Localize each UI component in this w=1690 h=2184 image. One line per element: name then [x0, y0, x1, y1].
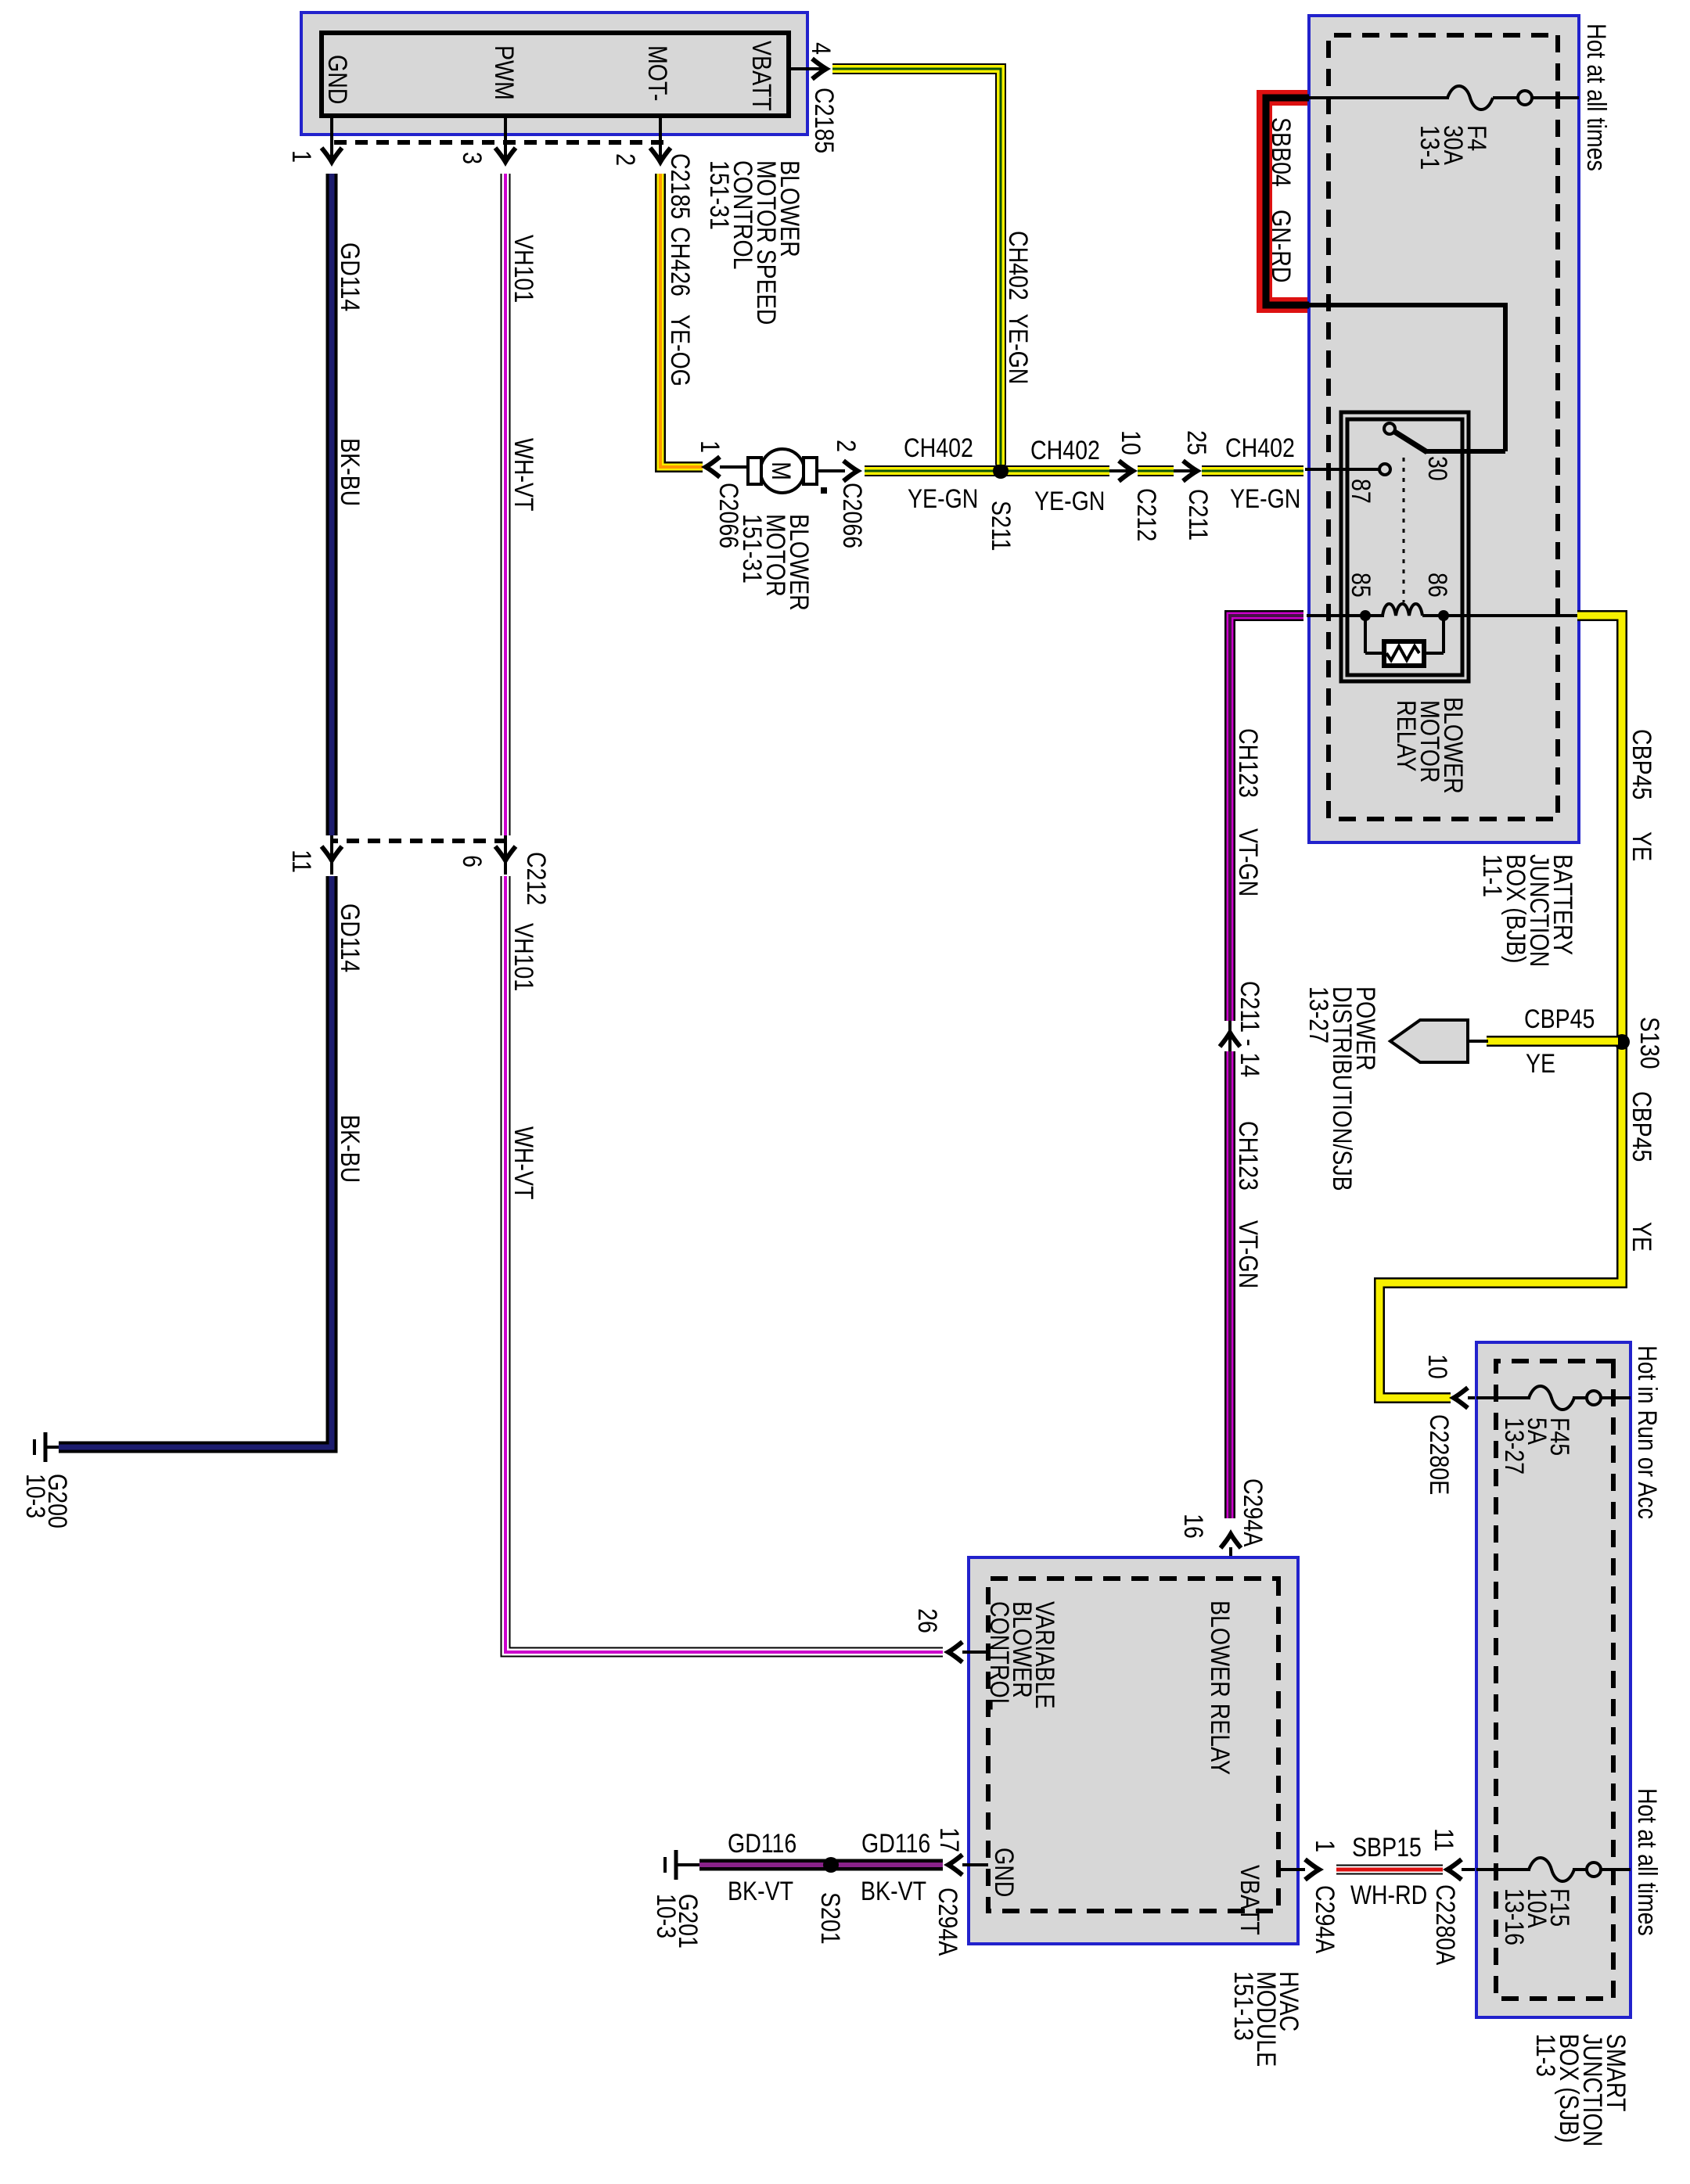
- caption SMART JUNCTION BOX (SJB) 11-3: [1530, 2034, 1631, 2146]
- svg-text:BK-BU: BK-BU: [335, 438, 365, 506]
- fuse F4 line mid: [1493, 96, 1518, 99]
- fuse F45 line lower: [1476, 1396, 1530, 1399]
- hvac pin 16 line: [1229, 1547, 1232, 1579]
- relay pin 86 terminal dot: [1438, 610, 1449, 621]
- fuse F45 line upper: [1601, 1396, 1631, 1399]
- ground G201: [665, 1850, 699, 1880]
- pin number 16: [1178, 1514, 1208, 1539]
- pin number 10: [1116, 430, 1145, 455]
- box HVAC MODULE: [969, 1557, 1298, 1944]
- svg-text:C211: C211: [1183, 489, 1213, 541]
- pin number 4: [806, 42, 836, 55]
- svg-text:VT-GN: VT-GN: [1233, 828, 1263, 896]
- relay resistor zigzag: [1386, 646, 1419, 660]
- pin number 1 (C294A): [1310, 1840, 1339, 1852]
- junction S130: [1614, 1034, 1630, 1050]
- svg-text:YE: YE: [1526, 1049, 1555, 1079]
- motor pin 1 thin line: [720, 465, 746, 469]
- svg-text:C212: C212: [1131, 488, 1161, 541]
- svg-text:10-3: 10-3: [20, 1474, 50, 1518]
- svg-text:M: M: [766, 462, 796, 480]
- connector arrow C294A pin 16: [1221, 1534, 1241, 1548]
- label CH402 (pair A): [904, 433, 973, 463]
- motor pin 2 thin line: [817, 469, 845, 472]
- svg-text:151-31: 151-31: [737, 514, 767, 584]
- caption HVAC MODULE 151-13: [1228, 1971, 1303, 2067]
- caption BLOWER MOTOR SPEED CONTROL 151-31: [704, 160, 804, 325]
- connector arrow C211 pin 25: [1183, 461, 1197, 481]
- label C2066 (pin 1): [714, 483, 743, 548]
- label CH426: [665, 227, 695, 296]
- pin MOT- stub: [659, 116, 662, 160]
- svg-text:151-13: 151-13: [1228, 1971, 1258, 2041]
- wire CH123 VT-GN segment 1: [1230, 616, 1303, 1021]
- svg-text:VT-GN: VT-GN: [1233, 1220, 1263, 1288]
- motor brush box top: [804, 458, 817, 484]
- svg-text:13-27: 13-27: [1499, 1417, 1529, 1475]
- label 10-3 (G201): [651, 1894, 681, 1938]
- svg-text:CH402: CH402: [1003, 231, 1033, 300]
- svg-text:86: 86: [1422, 573, 1452, 598]
- fuse F15 line lower: [1476, 1868, 1530, 1871]
- wire GD114 BK-BU segment 1: [326, 174, 338, 835]
- connector C212 dashed line: [333, 839, 507, 843]
- label GD116 (2): [728, 1829, 796, 1859]
- wire CH402 YE-GN VBATT feed: [832, 69, 1001, 465]
- fuse F4 terminal circle: [1518, 91, 1532, 105]
- fuse F15 terminal circle: [1587, 1863, 1601, 1877]
- label CBP45 (1): [1627, 729, 1656, 799]
- svg-text:GND: GND: [322, 55, 352, 104]
- svg-text:GD116: GD116: [728, 1829, 796, 1859]
- wire CH123 thin gap at C211-14: [1228, 1021, 1232, 1051]
- box BLOWER MOTOR SPEED CONTROL (inner): [322, 33, 789, 116]
- connector arrow C2185 pin 4: [812, 59, 826, 79]
- label G201: [673, 1894, 703, 1949]
- label CH123 (1): [1233, 728, 1263, 798]
- wire CH402 YE-GN between C212 and C211: [1138, 465, 1174, 476]
- label C294A (pin 17): [933, 1888, 962, 1956]
- wire CBP45 YE branch to power distribution: [1487, 1036, 1618, 1047]
- svg-text:BLOWER RELAY: BLOWER RELAY: [1205, 1600, 1235, 1775]
- svg-text:C294A: C294A: [1238, 1478, 1267, 1546]
- label VBATT: [746, 41, 776, 111]
- svg-text:WH-VT: WH-VT: [509, 1126, 538, 1200]
- label GND: [322, 55, 352, 104]
- wire SBB04 GN-RD bracket: [1264, 98, 1309, 305]
- hvac pin 26 line: [962, 1651, 988, 1654]
- label YE-GN (pair B): [1034, 487, 1105, 516]
- svg-text:2: 2: [610, 153, 640, 166]
- label GND (HVAC): [989, 1848, 1019, 1897]
- label YE (1): [1627, 832, 1656, 861]
- pin number 2: [610, 153, 640, 166]
- pin number 25: [1181, 430, 1211, 455]
- svg-text:SBP15: SBP15: [1352, 1833, 1422, 1863]
- svg-text:VH101: VH101: [509, 923, 538, 991]
- svg-text:GD116: GD116: [861, 1829, 930, 1859]
- pin number 26: [912, 1608, 942, 1633]
- svg-text:BK-BU: BK-BU: [335, 1115, 365, 1183]
- blower motor M circle: [760, 449, 804, 493]
- svg-text:Hot in Run or Acc: Hot in Run or Acc: [1632, 1345, 1662, 1519]
- svg-text:11-3: 11-3: [1530, 2034, 1560, 2077]
- label VARIABLE BLOWER CONTROL: [984, 1601, 1059, 1711]
- svg-text:YE-OG: YE-OG: [665, 314, 695, 386]
- svg-text:C2066: C2066: [837, 483, 867, 548]
- connector arrow pin 26: [948, 1642, 962, 1662]
- label MOT-: [642, 45, 672, 101]
- label GD114 (1): [335, 242, 365, 311]
- label YE-GN (pair C): [1230, 484, 1300, 514]
- fuse F4 line lower: [1307, 96, 1449, 99]
- label C211 - 14: [1235, 981, 1264, 1077]
- connector arrow C2066 pin 2: [843, 461, 858, 481]
- label C2185 at MOT- wire: [665, 153, 695, 219]
- label S130: [1634, 1017, 1664, 1069]
- power distribution pentagon: [1390, 1020, 1468, 1062]
- svg-text:13-27: 13-27: [1303, 986, 1333, 1044]
- label CH402 (pair B): [1030, 436, 1100, 465]
- svg-text:C2185: C2185: [665, 153, 695, 219]
- fuse F45 terminal circle: [1587, 1391, 1601, 1405]
- svg-text:3: 3: [457, 152, 487, 164]
- pin VBATT stub: [789, 67, 823, 70]
- pin number 3: [457, 152, 487, 164]
- svg-text:C2280A: C2280A: [1430, 1884, 1460, 1965]
- label F45 5A 13-27: [1499, 1417, 1574, 1475]
- label 85: [1346, 573, 1375, 598]
- wire CH123 VT-GN segment 2: [1224, 1051, 1235, 1518]
- connector arrow C2066 pin 1: [706, 457, 720, 477]
- wire CH402 thin gap at C212 (10): [1109, 469, 1131, 472]
- svg-text:Hot at all times: Hot at all times: [1632, 1788, 1662, 1936]
- svg-text:10-3: 10-3: [651, 1894, 681, 1938]
- svg-text:C2280E: C2280E: [1424, 1414, 1454, 1495]
- connector arrow C212 pin 11: [322, 846, 342, 860]
- label C2185 at VBATT pin: [809, 88, 839, 153]
- wire CH402 YE-GN motor to S211 and C212: [865, 465, 1109, 476]
- svg-text:BK-VT: BK-VT: [861, 1877, 926, 1906]
- pin GND stub: [330, 116, 333, 160]
- pin number 1: [286, 150, 316, 163]
- label F15 10A 13-16: [1499, 1888, 1574, 1945]
- relay pin 86 line to box edge: [1444, 614, 1579, 617]
- wire SBP15 thin to SJB: [1462, 1868, 1476, 1871]
- svg-text:GD114: GD114: [335, 903, 365, 972]
- label VH101 (1): [509, 235, 538, 303]
- caption BLOWER MOTOR RELAY: [1391, 697, 1468, 794]
- label C212 (pin 10): [1131, 488, 1161, 541]
- label C211 (pin 25): [1183, 489, 1213, 541]
- label SBB04: [1266, 117, 1296, 187]
- svg-text:S211: S211: [986, 501, 1016, 551]
- wire CH402 thin gap at C211 (25): [1174, 469, 1196, 472]
- label Hot at all times (BJB): [1581, 23, 1611, 171]
- box HVAC dashed inner: [988, 1579, 1278, 1911]
- label WH-VT (2): [509, 1126, 538, 1200]
- svg-text:C294A: C294A: [933, 1888, 962, 1956]
- fuse F15 line mid: [1573, 1868, 1587, 1871]
- label VBATT (HVAC): [1235, 1865, 1264, 1935]
- label 86: [1422, 573, 1452, 598]
- svg-text:10: 10: [1116, 430, 1145, 455]
- pin PWM stub: [504, 116, 507, 160]
- wire CH426 YE-OG: [660, 174, 703, 467]
- label YE (branch): [1526, 1049, 1555, 1079]
- svg-text:GD114: GD114: [335, 242, 365, 311]
- connector arrow C294A pin 17: [948, 1855, 962, 1875]
- connector arrow C2280A pin 11: [1447, 1859, 1462, 1880]
- label 30: [1422, 456, 1452, 481]
- svg-text:GND: GND: [989, 1848, 1019, 1897]
- svg-text:151-31: 151-31: [704, 160, 734, 230]
- label YE (2): [1627, 1222, 1656, 1252]
- caption POWER DISTRIBUTION/SJB 13-27: [1303, 986, 1380, 1191]
- label YE-GN (feed): [1003, 314, 1033, 384]
- label YE-GN (pair A): [908, 484, 978, 514]
- hvac pin 1 line: [1278, 1868, 1305, 1871]
- label C294A (pin 1): [1310, 1885, 1339, 1953]
- relay box inner: [1347, 419, 1462, 675]
- fuse F4 element: [1447, 86, 1493, 110]
- svg-text:16: 16: [1178, 1514, 1208, 1539]
- connector arrow C2185 pin 3: [495, 148, 516, 162]
- wire GD114 thin gap at C212: [330, 835, 333, 875]
- label SBP15: [1352, 1833, 1422, 1863]
- svg-text:WH-VT: WH-VT: [509, 438, 538, 512]
- relay pin 87 line: [1305, 468, 1379, 471]
- label VH101 (2): [509, 923, 538, 991]
- label BLOWER RELAY: [1205, 1600, 1235, 1775]
- label GD116 (1): [861, 1829, 930, 1859]
- wire CH402 YE-GN into BJB: [1202, 465, 1303, 476]
- fuse F45 element: [1529, 1386, 1574, 1410]
- svg-text:1: 1: [286, 150, 316, 163]
- label CBP45 (2): [1627, 1091, 1656, 1162]
- box BJB dashed inner: [1329, 35, 1558, 819]
- svg-text:4: 4: [806, 42, 836, 55]
- svg-text:CH402: CH402: [1225, 433, 1295, 463]
- svg-text:C294A: C294A: [1310, 1885, 1339, 1953]
- label S201: [815, 1892, 845, 1945]
- svg-text:YE: YE: [1627, 1222, 1656, 1252]
- wire VH101 WH-VT segment 1: [501, 174, 511, 835]
- connector arrow C294A pin 1: [1305, 1859, 1319, 1880]
- label BK-VT (2): [728, 1877, 793, 1906]
- relay feed line from SBB04: [1309, 303, 1505, 451]
- label YE-OG: [665, 314, 695, 386]
- svg-text:85: 85: [1346, 573, 1375, 598]
- label C294A (pin 16): [1238, 1478, 1267, 1546]
- relay box outer: [1341, 412, 1469, 681]
- box BLOWER MOTOR SPEED CONTROL (outer): [301, 13, 807, 135]
- label CH123 (2): [1233, 1121, 1263, 1191]
- box SMART JUNCTION BOX (SJB): [1476, 1342, 1631, 2017]
- svg-text:CH426: CH426: [665, 227, 695, 296]
- svg-text:1: 1: [1310, 1840, 1339, 1852]
- connector arrow C2280E pin 10: [1454, 1388, 1468, 1408]
- svg-text:YE-GN: YE-GN: [1003, 314, 1033, 384]
- svg-text:87: 87: [1346, 479, 1375, 504]
- svg-text:CH402: CH402: [904, 433, 973, 463]
- svg-text:1: 1: [695, 440, 725, 453]
- pin number 10 (C2280E): [1422, 1354, 1452, 1379]
- svg-text:10: 10: [1422, 1354, 1452, 1379]
- box BATTERY JUNCTION BOX (BJB): [1309, 16, 1579, 842]
- relay switch blade: [1393, 431, 1427, 452]
- label WH-RD: [1350, 1880, 1427, 1910]
- label C2280A: [1430, 1884, 1460, 1965]
- svg-text:26: 26: [912, 1608, 942, 1633]
- svg-text:CBP45: CBP45: [1524, 1004, 1595, 1034]
- svg-text:6: 6: [457, 855, 487, 867]
- svg-text:C212: C212: [521, 852, 551, 905]
- hvac pin 17 line: [962, 1863, 988, 1866]
- svg-text:11: 11: [1429, 1828, 1458, 1852]
- fuse F45 stub below box: [1468, 1396, 1476, 1399]
- label C2280E: [1424, 1414, 1454, 1495]
- svg-text:11: 11: [286, 850, 316, 873]
- connector arrow C2185 pin 2: [650, 148, 671, 162]
- junction S211: [993, 463, 1009, 479]
- svg-text:YE-GN: YE-GN: [1230, 484, 1300, 514]
- label BK-BU (1): [335, 438, 365, 506]
- label 87: [1346, 479, 1375, 504]
- connector arrow C211 pin 14: [1220, 1033, 1240, 1047]
- svg-text:CH123: CH123: [1233, 1121, 1263, 1191]
- relay pin 85 terminal dot: [1360, 610, 1371, 621]
- ground G200: [34, 1432, 59, 1462]
- junction S201: [823, 1857, 839, 1873]
- relay pin 87 contact circle: [1379, 464, 1390, 475]
- svg-text:CBP45: CBP45: [1627, 729, 1656, 799]
- svg-text:CH402: CH402: [1030, 436, 1100, 465]
- svg-text:17: 17: [934, 1827, 964, 1852]
- svg-text:2: 2: [831, 440, 861, 452]
- wire GD114 BK-BU segment 2: [59, 876, 332, 1447]
- label S211: [986, 501, 1016, 551]
- fuse F15 element: [1529, 1858, 1574, 1881]
- power distribution stub: [1466, 1040, 1488, 1043]
- label PWM: [489, 45, 519, 100]
- fuse F4 line upper: [1532, 96, 1579, 99]
- relay resistor box: [1384, 641, 1424, 666]
- svg-text:30: 30: [1422, 456, 1452, 481]
- svg-text:CBP45: CBP45: [1627, 1091, 1656, 1162]
- svg-text:YE-GN: YE-GN: [908, 484, 978, 514]
- label BK-VT (1): [861, 1877, 926, 1906]
- label WH-VT (1): [509, 438, 538, 512]
- svg-text:VBATT: VBATT: [746, 41, 776, 111]
- box SJB dashed inner: [1496, 1361, 1613, 1999]
- svg-text:GN-RD: GN-RD: [1266, 210, 1296, 283]
- svg-text:S130: S130: [1634, 1017, 1664, 1069]
- svg-text:PWM: PWM: [489, 45, 519, 100]
- wire SBP15 WH-RD: [1336, 1865, 1443, 1875]
- label VT-GN (2): [1233, 1220, 1263, 1288]
- svg-text:YE-GN: YE-GN: [1034, 487, 1105, 516]
- fuse F45 line mid: [1573, 1396, 1587, 1399]
- pin number 11: [286, 850, 316, 873]
- svg-text:BK-VT: BK-VT: [728, 1877, 793, 1906]
- relay resistor stubs: [1365, 616, 1444, 653]
- caption BLOWER MOTOR 151-31: [737, 514, 814, 611]
- pin number 11: [1429, 1828, 1458, 1852]
- label Hot in Run or Acc: [1632, 1345, 1662, 1519]
- fuse F15 line upper: [1601, 1868, 1631, 1871]
- svg-text:13-16: 13-16: [1499, 1888, 1529, 1945]
- label CH402 (pair C): [1225, 433, 1295, 463]
- relay actuation dotted line: [1403, 458, 1405, 602]
- connector arrow C2185 pin 1: [322, 148, 342, 162]
- label GN-RD (SBB04): [1266, 210, 1296, 283]
- motor polarity dot: [821, 487, 827, 494]
- label CBP45 (branch): [1524, 1004, 1595, 1034]
- wire VH101 thin gap at C212: [504, 835, 507, 875]
- svg-text:C2185: C2185: [809, 88, 839, 153]
- caption BATTERY JUNCTION BOX (BJB) 11-1: [1477, 854, 1577, 967]
- svg-text:S201: S201: [815, 1892, 845, 1945]
- pin number 1 (C2066): [695, 440, 725, 453]
- svg-text:13-1: 13-1: [1415, 125, 1444, 170]
- pin number 17: [934, 1827, 964, 1852]
- svg-text:CONTROL: CONTROL: [984, 1601, 1014, 1711]
- label Hot at all times (SJB): [1632, 1788, 1662, 1936]
- label G200: [42, 1474, 72, 1528]
- label GD114 (2): [335, 903, 365, 972]
- connector arrow C212 pin 6: [495, 846, 516, 860]
- svg-text:YE: YE: [1627, 832, 1656, 861]
- svg-text:VH101: VH101: [509, 235, 538, 303]
- label 10-3 (G200): [20, 1474, 50, 1518]
- relay pin 30 contact circle: [1384, 423, 1395, 434]
- relay pin 85 line to box edge: [1307, 614, 1365, 617]
- connector arrow C212 pin 10: [1119, 461, 1133, 481]
- wire VH101 WH-VT segment 2: [505, 876, 943, 1652]
- pin number 2 (C2066): [831, 440, 861, 452]
- label VT-GN (1): [1233, 828, 1263, 896]
- label C212 (inline): [521, 852, 551, 905]
- svg-text:CH123: CH123: [1233, 728, 1263, 798]
- svg-text:11-1: 11-1: [1477, 854, 1507, 897]
- wire CBP45 YE main run: [1379, 616, 1622, 1398]
- label BK-BU (2): [335, 1115, 365, 1183]
- svg-text:25: 25: [1181, 430, 1211, 455]
- svg-text:WH-RD: WH-RD: [1350, 1880, 1427, 1910]
- wire GD116 BK-VT: [699, 1859, 943, 1871]
- relay coil: [1365, 604, 1444, 616]
- svg-text:C211 - 14: C211 - 14: [1235, 981, 1264, 1077]
- label F4 30A 13-1: [1415, 125, 1491, 170]
- svg-text:RELAY: RELAY: [1391, 700, 1421, 772]
- motor brush box bottom: [748, 458, 761, 484]
- svg-text:MOT-: MOT-: [642, 45, 672, 101]
- connector C2185 dashed line: [329, 140, 663, 145]
- pin number 6: [457, 855, 487, 867]
- label CH402 (feed): [1003, 231, 1033, 300]
- label C2066 (pin 2): [837, 483, 867, 548]
- svg-text:VBATT: VBATT: [1235, 1865, 1264, 1935]
- svg-text:SBB04: SBB04: [1266, 117, 1296, 187]
- svg-text:Hot at all times: Hot at all times: [1581, 23, 1611, 171]
